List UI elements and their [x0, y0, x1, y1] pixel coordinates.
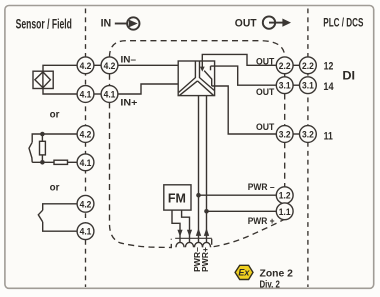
wire 2.2 link — [293, 64, 299, 66]
resistor R2 (series) — [54, 160, 68, 164]
svg-text:or: or — [50, 109, 60, 120]
terminal 4.2 device — [101, 57, 118, 74]
node junction bottom — [40, 160, 45, 165]
svg-text:4.1: 4.1 — [80, 90, 92, 101]
terminal 4.1 device — [101, 86, 118, 103]
isolation Y symbol — [179, 61, 215, 95]
wire 3.1 link — [293, 84, 299, 86]
svg-text:Ex: Ex — [238, 268, 250, 278]
svg-text:or: or — [50, 182, 60, 193]
terminal 3.2 device — [276, 126, 293, 143]
svg-text:Zone 2: Zone 2 — [260, 267, 294, 279]
svg-text:OUT: OUT — [256, 122, 275, 132]
wire to OUT 3.1 — [211, 66, 277, 85]
arrow FM pin2 down — [187, 230, 192, 237]
wire FM pin1 — [172, 210, 180, 242]
terminal 4.2 b — [77, 126, 94, 143]
wire resistor R2 to 4.1 — [68, 161, 78, 163]
terminal 4.2 a — [77, 57, 94, 74]
terminal 1.1 device — [276, 203, 293, 220]
connector socket 4 — [202, 242, 210, 247]
wire resistor R1 stubs — [41, 134, 43, 162]
resistor R1 (parallel) — [40, 141, 46, 155]
svg-text:1.1: 1.1 — [279, 207, 291, 218]
wire PWR+ vertical — [206, 96, 208, 243]
svg-text:4.2: 4.2 — [80, 61, 92, 72]
svg-text:1.2: 1.2 — [279, 191, 291, 202]
svg-text:Div. 2: Div. 2 — [260, 279, 281, 290]
svg-text:IN–: IN– — [121, 54, 137, 64]
terminal 3.1 plc — [300, 77, 317, 94]
svg-text:3.1: 3.1 — [279, 81, 291, 92]
terminal 3.1 device — [276, 77, 293, 94]
svg-text:4.2: 4.2 — [80, 199, 92, 210]
wire to OUT 3.2 — [212, 86, 277, 134]
wire 4.2 link — [94, 64, 101, 66]
wire IN- — [118, 64, 178, 66]
terminal 2.2 device — [276, 57, 293, 74]
terminal 3.2 plc — [300, 126, 317, 143]
device outline right edge — [284, 74, 286, 187]
arrow PWR+ up — [204, 228, 209, 236]
wire PWR- to 1.2 — [199, 194, 277, 196]
terminal 4.1 a — [77, 86, 94, 103]
svg-text:PWR+: PWR+ — [201, 247, 210, 272]
wire FM pin2 — [182, 210, 190, 242]
svg-text:DI: DI — [342, 69, 355, 83]
connector socket 2 — [185, 242, 193, 247]
svg-text:11: 11 — [324, 131, 333, 143]
svg-text:2.2: 2.2 — [302, 61, 314, 72]
terminal 2.2 plc — [300, 57, 317, 74]
terminal labels — [80, 61, 315, 238]
wire PWR+ to 1.1 — [207, 210, 277, 212]
svg-text:2.2: 2.2 — [279, 61, 291, 72]
svg-text:4.2: 4.2 — [80, 130, 92, 141]
wire bottom to resistor R2 — [32, 161, 54, 163]
svg-text:12: 12 — [324, 60, 334, 72]
terminal 4.2 c — [77, 195, 94, 212]
svg-text:IN+: IN+ — [120, 98, 137, 108]
device outline top edge — [110, 41, 285, 57]
connector socket 3 — [194, 242, 202, 247]
Ex hexagon — [235, 265, 253, 279]
header OUT icon — [263, 16, 291, 28]
isolator block U1 — [178, 61, 214, 96]
node PWR+ junction — [204, 209, 209, 214]
node PWR- junction — [196, 193, 201, 198]
terminal 4.1 b — [77, 154, 94, 171]
node junction top — [40, 132, 45, 137]
svg-text:PWR –: PWR – — [248, 182, 275, 192]
svg-text:Sensor / Field: Sensor / Field — [16, 17, 72, 32]
switch S3 blade — [38, 210, 42, 222]
wire 3.2 link — [293, 133, 299, 135]
wire sensor1 to 4.1 — [43, 89, 77, 95]
switch S2 blade — [29, 142, 32, 162]
cabinet boundary right (dashed) — [307, 9, 309, 288]
connector bar — [175, 237, 212, 239]
svg-text:OUT: OUT — [256, 56, 275, 66]
terminal 4.1 c — [77, 223, 94, 240]
svg-text:PWR +: PWR + — [248, 216, 275, 226]
svg-text:14: 14 — [323, 81, 334, 93]
svg-text:3.1: 3.1 — [302, 81, 314, 92]
svg-text:4.2: 4.2 — [104, 61, 116, 72]
proximity sensor B1 — [33, 71, 53, 88]
svg-text:FM: FM — [168, 190, 186, 205]
device outline left edge — [110, 74, 172, 248]
relay contact stub — [210, 66, 212, 70]
svg-text:4.1: 4.1 — [80, 227, 92, 238]
switch S2 with resistors — [32, 134, 77, 142]
svg-text:4.1: 4.1 — [104, 90, 116, 101]
wire switch S3 to 4.1 — [43, 222, 77, 231]
wire sensor1 to 4.2 — [43, 65, 77, 71]
svg-text:OUT: OUT — [256, 87, 275, 97]
connector socket 1 — [176, 242, 184, 247]
wire PWR- vertical — [198, 96, 200, 243]
FM box — [164, 185, 191, 210]
wire 4.1 link — [94, 93, 101, 95]
arrow PWR- up — [196, 228, 201, 236]
device outline bottom-right edge — [212, 219, 285, 247]
svg-text:4.1: 4.1 — [80, 158, 92, 169]
svg-text:PLC / DCS: PLC / DCS — [323, 16, 363, 30]
arrow FM pin1 down — [177, 230, 182, 237]
terminal 1.2 device — [276, 187, 293, 204]
switch S3 — [43, 204, 77, 210]
relay contact arrow — [200, 67, 205, 72]
svg-text:3.2: 3.2 — [302, 130, 314, 141]
relay contact blade — [204, 71, 212, 86]
svg-text:OUT: OUT — [235, 18, 257, 30]
wire to OUT 2.2 — [202, 54, 276, 69]
svg-text:IN: IN — [101, 18, 112, 30]
svg-text:3.2: 3.2 — [279, 130, 291, 141]
wire IN+ — [118, 84, 178, 94]
cabinet boundary left (dashed) — [85, 9, 87, 288]
header IN icon — [115, 17, 140, 29]
